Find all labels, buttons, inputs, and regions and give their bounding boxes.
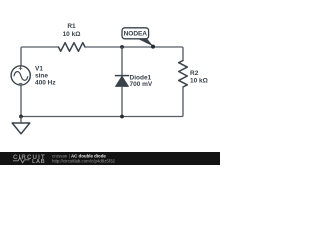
- svg-text:10 kΩ: 10 kΩ: [63, 31, 81, 38]
- voltage source V1: [11, 66, 30, 85]
- plus sign: [19, 67, 23, 71]
- wire: R2 bottom to bottom-right corner to ground rail: [21, 87, 183, 117]
- CircuitLab logo: [13, 154, 46, 165]
- sine wave inside V1: [14, 72, 28, 81]
- svg-text:sine: sine: [35, 72, 48, 79]
- svg-text:R1: R1: [67, 23, 76, 30]
- junction dot ground rail left: [19, 115, 23, 119]
- footer watermark bar: [0, 152, 220, 165]
- wire: diode bottom to ground rail: [121, 86, 123, 116]
- node A anchor dot: [151, 45, 155, 49]
- junction dot diode bottom: [120, 115, 124, 119]
- svg-text:10 kΩ: 10 kΩ: [190, 78, 208, 85]
- svg-text:400 Hz: 400 Hz: [35, 79, 56, 86]
- node A flag NODEA: [122, 28, 154, 47]
- diode Diode1: [115, 76, 129, 87]
- svg-text:NODEA: NODEA: [124, 31, 148, 38]
- wire: R1 right to R2 top (top wire + top-right corner): [85, 47, 183, 61]
- svg-text:700 mV: 700 mV: [130, 81, 153, 88]
- node junction dot at diode branch top: [120, 45, 124, 49]
- ground: [12, 117, 30, 134]
- resistor R1: [59, 43, 86, 52]
- wire: V1 top to R1 left (left vertical + top-left corner): [21, 47, 59, 66]
- minus sign: [19, 82, 23, 84]
- wire: diode branch from node A down: [121, 47, 123, 76]
- wire: V1 bottom to ground rail: [20, 85, 22, 117]
- resistor R2: [179, 61, 188, 88]
- svg-text:http://circuitlab.com/c/p4d8z5: http://circuitlab.com/c/p4d8z5f32: [52, 159, 116, 164]
- svg-text:LAB: LAB: [32, 159, 45, 165]
- svg-text:R2: R2: [190, 70, 199, 77]
